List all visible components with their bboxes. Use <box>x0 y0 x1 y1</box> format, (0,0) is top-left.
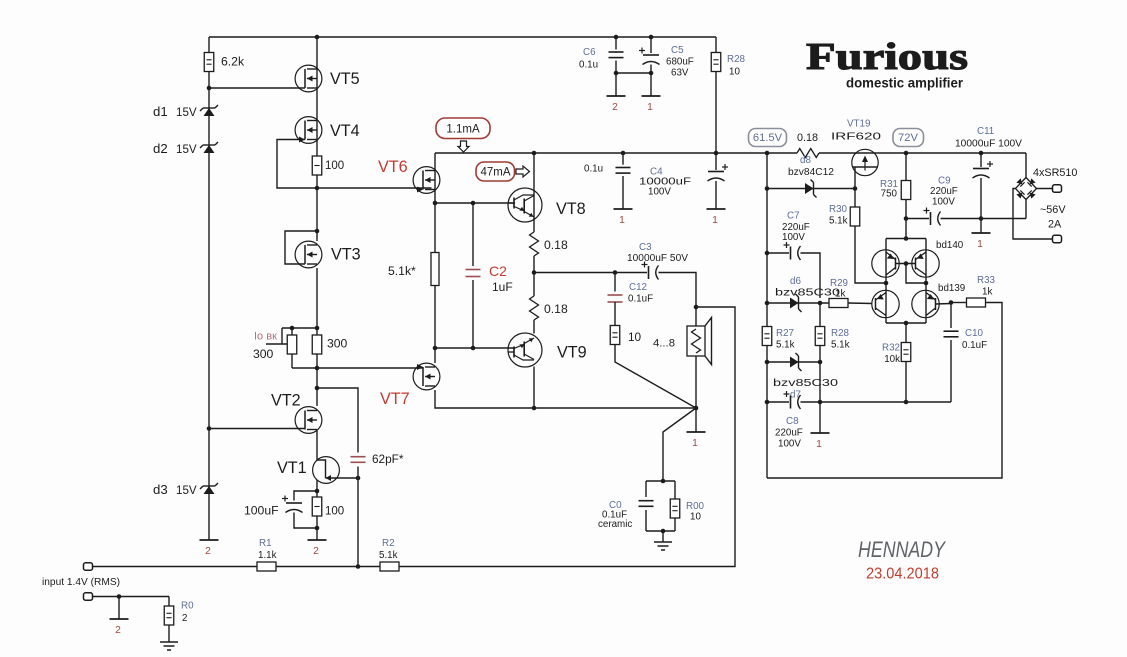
wire feedback from output <box>399 307 735 567</box>
node bd140 bases <box>904 261 909 266</box>
resistor R2 5.1k <box>380 562 399 571</box>
svg-text:2: 2 <box>313 546 319 557</box>
wire top supply rail <box>209 36 716 38</box>
wire R00 bottom stub <box>674 518 676 532</box>
zener d7 bzv85C30 <box>790 357 799 368</box>
svg-text:680uF: 680uF <box>666 57 694 68</box>
wire input to R1 <box>93 566 258 568</box>
wire to VT9 base <box>435 347 515 349</box>
svg-text:5.1k*: 5.1k* <box>388 264 416 278</box>
wire VT3 gate bracket <box>285 231 317 264</box>
wire R28 to mid rail <box>715 72 717 154</box>
svg-text:0.18: 0.18 <box>544 238 568 252</box>
node C12 tap <box>613 270 618 275</box>
wire C9 to bridge bottom <box>941 218 1027 220</box>
wire bias left rail lower <box>766 345 768 478</box>
wire bias left rail upper <box>766 153 768 327</box>
ground C0 <box>654 542 672 550</box>
resistor 0.18 (VT19 drain) <box>797 149 819 158</box>
wire C6-C5 bottoms <box>616 72 651 74</box>
svg-text:4...8: 4...8 <box>653 338 675 350</box>
wire C0 bracket top <box>646 480 675 482</box>
capacitor C9 220uF 100V <box>930 212 932 225</box>
node VT2 gate tap <box>207 426 212 431</box>
svg-text:d2: d2 <box>153 141 168 156</box>
svg-text:10000uF 100V: 10000uF 100V <box>955 139 1022 150</box>
wire R0 to ground <box>168 625 170 642</box>
resistor R30 5.1k <box>850 207 860 226</box>
wire quad bottom bracket <box>886 322 926 324</box>
node R33 left / C10 <box>949 300 954 305</box>
wire C11 top <box>980 153 982 167</box>
svg-text:VT6: VT6 <box>378 158 408 176</box>
svg-text:0.1u: 0.1u <box>584 164 603 175</box>
terminal net 2 VT1 <box>308 539 327 541</box>
node VT7 drain / VT9 base line <box>433 346 438 351</box>
resistor 100 (VT4 source) <box>312 156 322 175</box>
svg-text:R0: R0 <box>181 601 194 612</box>
wire rail to VT2 <box>316 368 318 406</box>
svg-text:10k: 10k <box>884 354 900 365</box>
node quad bottom <box>904 321 909 326</box>
node d8 left <box>765 186 770 191</box>
wire to R32 <box>905 323 907 343</box>
svg-text:0.1uF: 0.1uF <box>962 340 987 351</box>
wire left 300 bottom stub <box>291 354 293 368</box>
svg-text:100: 100 <box>325 506 344 518</box>
svg-text:5.1k: 5.1k <box>831 340 850 351</box>
wire R30 to quad <box>855 226 886 284</box>
terminal AC 1 <box>1053 185 1062 192</box>
svg-text:100: 100 <box>325 160 344 172</box>
terminal AC 2 <box>1053 235 1062 242</box>
wire block bottom to output node <box>534 407 696 409</box>
zener d2 <box>200 142 218 148</box>
wire C6 top <box>615 37 617 50</box>
wire VT3 source down <box>316 268 318 328</box>
wire R00 top stub <box>674 481 676 500</box>
wire quad top bracket <box>886 238 926 240</box>
terminal net 2 input <box>110 618 129 620</box>
wire C7 to d6 node <box>801 253 821 298</box>
svg-text:R33: R33 <box>977 275 996 286</box>
wire VT7 to block bottom <box>435 390 534 408</box>
wire R100b bottom <box>316 516 318 528</box>
transistor VT2 <box>295 407 322 434</box>
wire to R30 <box>854 189 856 208</box>
svg-text:d8: d8 <box>800 155 811 166</box>
svg-text:C11: C11 <box>977 126 994 137</box>
svg-text:bd140: bd140 <box>936 240 964 251</box>
bridge rectifier 4xSR510 <box>1013 153 1053 239</box>
wire to VT6 gate <box>317 187 432 189</box>
svg-text:HENNADY: HENNADY <box>858 537 946 562</box>
wire C8 left <box>767 401 789 403</box>
wire C11 bottom <box>980 178 982 233</box>
svg-text:0.1u: 0.1u <box>579 60 598 71</box>
node C5 top <box>649 35 654 40</box>
wire C12 top <box>614 273 616 292</box>
wire C0 top stub <box>645 481 647 497</box>
wire mid supply rail right part <box>819 152 1026 154</box>
node VT1 drain / 100uF <box>315 489 320 494</box>
resistor R32 10k <box>901 343 911 362</box>
wire R100 to node <box>316 175 318 188</box>
svg-text:VT5: VT5 <box>330 70 360 88</box>
wire between 0.18s <box>533 256 535 296</box>
terminal net 1 output <box>687 431 706 433</box>
node R100b/100uF bottom <box>315 526 320 531</box>
svg-text:R2: R2 <box>382 538 395 549</box>
wire to 62pF top <box>317 388 358 453</box>
wire left rail to R 6.2k <box>208 37 210 53</box>
svg-text:R28: R28 <box>727 54 746 65</box>
svg-text:2: 2 <box>205 546 211 557</box>
svg-text:R32: R32 <box>882 343 900 354</box>
node C2 bottom <box>471 346 476 351</box>
wire rail to VT3 <box>316 188 318 241</box>
transistor VT7 <box>413 363 440 390</box>
svg-text:VT9: VT9 <box>557 344 587 362</box>
svg-text:bd139: bd139 <box>938 283 965 294</box>
svg-text:10000uF 50V: 10000uF 50V <box>627 253 688 264</box>
svg-text:R28: R28 <box>831 328 850 339</box>
node left 300 top <box>290 326 295 331</box>
node VT19 gate / R30 <box>853 186 858 191</box>
svg-text:R27: R27 <box>776 328 794 339</box>
wire to R33 <box>951 302 967 304</box>
svg-text:C7: C7 <box>787 211 800 222</box>
node VT3 drain-gate <box>315 229 320 234</box>
node d7 left <box>765 360 770 365</box>
svg-text:d3: d3 <box>153 482 168 497</box>
svg-text:15V: 15V <box>176 106 197 119</box>
wire R32 bottom <box>905 361 907 402</box>
svg-text:~56V: ~56V <box>1040 204 1066 216</box>
wire Io vk leader <box>266 343 287 345</box>
wire feedback box <box>767 303 1002 479</box>
wire C7 left <box>767 252 789 254</box>
svg-text:300: 300 <box>253 347 274 361</box>
svg-text:1: 1 <box>712 215 718 226</box>
wire C8 line right <box>801 401 952 403</box>
wire to C8 line <box>819 362 821 402</box>
svg-text:VT7: VT7 <box>380 390 410 408</box>
zener d3 <box>200 483 218 489</box>
wire C12 to R10 <box>614 302 616 326</box>
terminal input signal <box>84 563 93 570</box>
transistor bd139 left <box>872 290 899 317</box>
svg-text:0.1uF: 0.1uF <box>628 294 653 305</box>
capacitor C11 10000uF 100V <box>973 168 989 170</box>
node d6 left <box>765 301 770 306</box>
wire VT9 emitter down <box>533 367 535 409</box>
node C7 left <box>765 251 770 256</box>
wire C5 bottom <box>650 65 652 97</box>
node d7 right <box>818 360 823 365</box>
capacitor C3 10000uF 50V <box>648 266 650 279</box>
wire 300 pair bottom bracket <box>292 367 317 369</box>
svg-text:1.1mA: 1.1mA <box>446 124 480 136</box>
wire output to C3 <box>534 272 647 274</box>
transistor VT1 <box>313 457 358 491</box>
node R1/R2/VT1 <box>356 564 361 569</box>
wire bd140 bases <box>896 263 916 265</box>
svg-text:5.1k: 5.1k <box>829 216 848 227</box>
resistor R28 10 <box>711 53 721 72</box>
wire C9 left <box>906 218 929 220</box>
terminal net 1 0.1u <box>614 208 633 210</box>
resistor R28 5.1k (second) <box>815 327 825 346</box>
svg-text:10: 10 <box>729 67 740 78</box>
resistor R29 1k <box>829 299 848 308</box>
wire R31 to quad <box>905 199 907 239</box>
svg-text:VT4: VT4 <box>330 122 360 140</box>
terminal net 1 C5 <box>642 95 661 97</box>
svg-text:d6: d6 <box>790 276 801 287</box>
wire C4 top <box>715 153 717 170</box>
svg-text:C2: C2 <box>489 263 507 279</box>
node VT6 gate / VT3 <box>315 186 320 191</box>
resistor R0 2 <box>164 606 174 625</box>
transistor VT8 <box>508 188 542 222</box>
svg-text:750: 750 <box>881 189 898 200</box>
svg-text:10: 10 <box>628 330 642 344</box>
node input gnd tap <box>117 594 122 599</box>
capacitor C2 1uF <box>466 270 481 277</box>
node VT1 source / 62pF <box>356 476 361 481</box>
svg-text:0.18: 0.18 <box>797 132 818 144</box>
transistor bd140 right <box>912 250 939 277</box>
wire VT4 gate bracket <box>277 140 317 189</box>
node C4/R28 <box>714 151 719 156</box>
svg-text:1: 1 <box>619 215 625 226</box>
node 72V/R31 <box>904 151 909 156</box>
svg-text:10: 10 <box>690 512 701 523</box>
svg-text:R1: R1 <box>259 538 272 549</box>
svg-text:1.1k: 1.1k <box>258 550 277 561</box>
svg-text:1: 1 <box>816 439 822 450</box>
svg-text:d1: d1 <box>153 104 168 119</box>
wire R1 to R2 <box>276 566 380 568</box>
arrow 47mA right <box>516 166 530 177</box>
speaker 4...8 <box>687 318 712 365</box>
node output star <box>694 406 699 411</box>
wire Io vk pointer vertical <box>281 328 283 344</box>
wire C10 top <box>950 303 952 329</box>
svg-text:Furious: Furious <box>806 36 968 78</box>
svg-text:100V: 100V <box>648 187 671 198</box>
wire to VT5 gate <box>209 87 305 89</box>
wire right 300 stub <box>316 328 318 335</box>
transistor bd139 right <box>912 290 939 317</box>
svg-text:domestic amplifier: domestic amplifier <box>846 75 964 91</box>
terminal input ground <box>84 593 93 600</box>
svg-text:2: 2 <box>115 625 121 636</box>
svg-text:15V: 15V <box>176 143 197 156</box>
wire 5.1k* to VT7 <box>434 286 436 364</box>
capacitor C5 680uF 63V <box>643 54 659 56</box>
svg-text:6.2k: 6.2k <box>221 55 245 69</box>
wire to terminal <box>316 528 318 540</box>
wire to VT8 base <box>435 202 515 204</box>
node VT8 collector rail <box>532 151 537 156</box>
callout 1.1mA <box>436 118 490 139</box>
node block bottom <box>532 406 537 411</box>
wire R29 to bd139 left <box>848 302 872 305</box>
terminal net 1 bias <box>811 432 830 434</box>
node C9 left <box>904 216 909 221</box>
wire R28b top <box>819 303 821 327</box>
wire down to input line <box>357 478 359 567</box>
transistor VT6 <box>413 167 440 194</box>
wire 0.1u mid top <box>622 153 624 165</box>
callout 47mA <box>476 162 515 181</box>
resistor 6.2k <box>204 53 214 72</box>
resistor 0.18 lower <box>530 296 539 320</box>
svg-text:ceramic: ceramic <box>598 519 632 530</box>
capacitor C4 10000uF 100V <box>708 171 724 173</box>
resistor 0.18 upper <box>530 232 539 256</box>
svg-text:bzv84C12: bzv84C12 <box>788 167 834 178</box>
capacitor C6 0.1u <box>609 52 624 58</box>
transistor VT5 <box>295 65 322 92</box>
node R32 bottom <box>904 400 909 405</box>
svg-text:VT8: VT8 <box>556 200 586 218</box>
svg-text:2A: 2A <box>1048 219 1062 231</box>
node C8 left <box>765 400 770 405</box>
svg-text:5.1k: 5.1k <box>379 550 398 561</box>
node quad top <box>904 236 909 241</box>
resistor R31 750 <box>901 181 911 200</box>
node quad right mid <box>924 281 929 286</box>
svg-text:C3: C3 <box>639 242 652 253</box>
wire quad left vertical <box>885 239 887 324</box>
arrow 1.1mA down <box>458 141 469 152</box>
wire 300 pair top bracket <box>282 327 317 329</box>
wire left zener rail <box>208 72 210 541</box>
svg-text:IRF620: IRF620 <box>831 132 882 143</box>
callout 72V <box>893 129 924 147</box>
node above 300 pair <box>315 326 320 331</box>
svg-text:300: 300 <box>327 337 348 351</box>
node output mid <box>532 270 537 275</box>
wire VT8 collector/emitter <box>533 153 535 232</box>
capacitor C0 0.1uF ceramic <box>639 501 654 507</box>
wire to VT2 gate <box>209 428 305 430</box>
svg-text:100uF: 100uF <box>244 504 279 518</box>
svg-text:72V: 72V <box>898 132 918 144</box>
resistor 5.1k* <box>431 253 439 286</box>
svg-text:R30: R30 <box>829 204 848 215</box>
callout 61.5V <box>749 129 787 147</box>
svg-text:5.1k: 5.1k <box>776 340 795 351</box>
resistor R1 1.1k <box>257 562 276 571</box>
transistor VT9 <box>508 333 542 367</box>
capacitor 62pF* <box>351 457 366 463</box>
terminal net 2 C6 <box>607 95 626 97</box>
node below 300 pair <box>315 366 320 371</box>
zener d6 bzv85C30 <box>790 298 799 309</box>
svg-text:47mA: 47mA <box>480 167 510 179</box>
svg-text:C10: C10 <box>965 328 984 339</box>
ground input <box>160 642 178 650</box>
svg-text:63V: 63V <box>671 68 689 79</box>
node d6 / R29 / R28b <box>818 301 823 306</box>
svg-text:1k: 1k <box>982 287 992 298</box>
wire to ground <box>662 531 664 542</box>
svg-text:bzv85C30: bzv85C30 <box>775 288 841 299</box>
svg-text:220uF: 220uF <box>930 186 958 197</box>
svg-text:1: 1 <box>977 239 983 250</box>
wire bases to right node <box>906 264 926 284</box>
wire quad right vertical <box>925 239 927 324</box>
wire C4 bottom <box>715 181 717 209</box>
svg-text:61.5V: 61.5V <box>753 132 783 144</box>
terminal net 1 C4 <box>707 208 726 210</box>
transistor VT4 <box>295 117 322 144</box>
node top rail / VT5 drain <box>315 35 320 40</box>
wire C2 top leg <box>472 203 474 266</box>
wire C5 top <box>650 37 652 53</box>
capacitor 100uF <box>286 502 302 504</box>
capacitor C8 220uF 100V <box>790 396 792 409</box>
wire VT2 source down <box>316 430 318 460</box>
wire right 300 bottom stub <box>316 354 318 368</box>
node C0 top <box>661 479 666 484</box>
transistor VT3 <box>295 241 322 268</box>
svg-text:62pF*: 62pF* <box>372 452 404 466</box>
node C0 bottom <box>661 529 666 534</box>
wire C3 to speaker <box>659 273 697 327</box>
svg-text:100V: 100V <box>932 197 955 208</box>
wire C10 bottom <box>950 340 952 402</box>
svg-text:VT19: VT19 <box>847 119 870 130</box>
node C11 bottom <box>979 216 984 221</box>
svg-text:100V: 100V <box>778 439 801 450</box>
resistor R33 1k <box>967 298 986 307</box>
svg-text:C9: C9 <box>938 176 951 187</box>
svg-text:4xSR510: 4xSR510 <box>1033 167 1077 179</box>
wire R31 top <box>905 153 907 181</box>
svg-text:2: 2 <box>182 613 187 624</box>
wire output to terminal <box>695 408 697 432</box>
wire to R0 <box>168 597 170 607</box>
node C6 top <box>614 35 619 40</box>
svg-text:15V: 15V <box>176 484 197 497</box>
wire to VT7 gate <box>317 367 423 369</box>
wire top rail to R28 <box>715 37 717 53</box>
node C5 bottom <box>649 71 654 76</box>
svg-text:1uF: 1uF <box>492 280 513 294</box>
node C2 top <box>471 201 476 206</box>
svg-text:R29: R29 <box>830 278 848 289</box>
wire d7 line <box>767 361 820 363</box>
svg-text:C8: C8 <box>786 416 799 427</box>
wire d8 line <box>767 188 855 190</box>
svg-text:d7: d7 <box>790 390 801 401</box>
resistor R00 10 <box>670 499 680 518</box>
capacitor 0.1u mid <box>616 168 631 174</box>
node 61.5V rail tap <box>765 151 770 156</box>
wire bd139 right base out <box>936 303 952 306</box>
wire d6 line <box>767 302 829 304</box>
node 0.1u tap <box>621 151 626 156</box>
wire to terminal 2 <box>118 597 120 620</box>
wire VT6 vertical <box>434 153 436 253</box>
wire C2 bottom leg <box>472 280 474 348</box>
wire output to C0 network <box>663 408 696 481</box>
